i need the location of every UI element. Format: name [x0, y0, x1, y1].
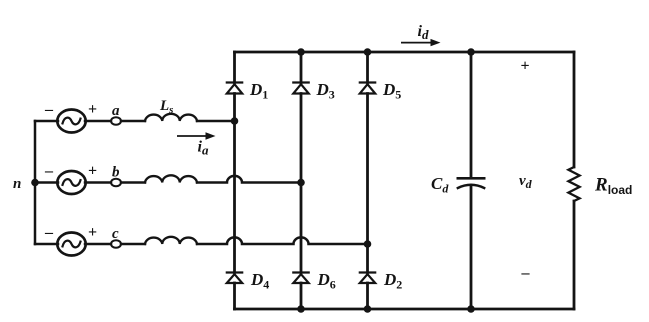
diode D3 — [293, 83, 308, 94]
wire bottom dc rail — [235, 308, 575, 311]
svg-text:ia: ia — [198, 139, 209, 158]
arrow current ia — [177, 132, 216, 139]
svg-text:D3: D3 — [316, 80, 335, 102]
junction bottom rail capacitor — [467, 305, 475, 313]
terminal a — [111, 117, 121, 125]
terminal b — [111, 179, 121, 187]
diode D4 — [227, 273, 242, 284]
svg-text:D5: D5 — [382, 80, 401, 102]
inductor Ls phase a — [145, 114, 197, 121]
wire phase c source leads — [35, 243, 58, 246]
wire phase b source leads — [35, 181, 58, 184]
svg-text:vd: vd — [519, 173, 533, 191]
junction bottom rail column 3 — [364, 305, 372, 313]
svg-text:–: – — [521, 264, 531, 281]
AC source Vc — [57, 233, 85, 256]
diode D5 — [360, 83, 375, 94]
wire bridge column 1 — [233, 52, 236, 83]
svg-text:–: – — [44, 224, 54, 241]
junction phase a column 1 — [231, 117, 239, 125]
AC source Va — [57, 110, 85, 133]
wire left rail — [34, 121, 37, 244]
wire bridge column 2 — [300, 52, 303, 83]
svg-text:id: id — [418, 23, 429, 42]
capacitor Cd — [458, 52, 484, 309]
AC source Vb — [57, 171, 85, 194]
resistor Rload — [568, 52, 579, 309]
svg-text:n: n — [13, 176, 21, 192]
svg-text:c: c — [112, 226, 119, 242]
junction top rail column 3 — [364, 48, 372, 56]
svg-text:+: + — [88, 224, 97, 241]
wire phase b inductor to bridge with hop over column 1 — [197, 176, 301, 183]
svg-text:Rload: Rload — [594, 175, 632, 198]
diode D6 — [293, 273, 308, 284]
wire phase a inductor to bridge — [197, 120, 235, 123]
junction top rail column 2 — [297, 48, 305, 56]
wire phase c inductor to bridge with hops over columns 1 and 2 — [197, 237, 368, 244]
inductor phase c — [145, 237, 197, 244]
junction top rail capacitor — [467, 48, 475, 56]
svg-text:b: b — [112, 165, 120, 181]
junction phase c column 3 — [364, 240, 372, 248]
inductor phase b — [145, 175, 197, 182]
svg-text:Cd: Cd — [431, 174, 449, 196]
wire top dc rail — [235, 51, 575, 54]
wire phase a source leads — [35, 120, 58, 123]
svg-text:Ls: Ls — [159, 98, 173, 116]
junction bottom rail column 2 — [297, 305, 305, 313]
svg-text:+: + — [88, 101, 97, 118]
svg-text:+: + — [88, 163, 97, 180]
svg-text:a: a — [112, 103, 120, 119]
diode D2 — [360, 273, 375, 284]
svg-text:D4: D4 — [250, 270, 269, 292]
node n junction dot — [31, 179, 39, 187]
svg-text:–: – — [44, 101, 54, 118]
wire bridge column 3 — [366, 52, 369, 83]
svg-text:+: + — [521, 58, 530, 75]
svg-text:D6: D6 — [317, 270, 336, 292]
svg-text:D2: D2 — [383, 270, 402, 292]
svg-text:D1: D1 — [249, 80, 268, 102]
junction phase b column 2 — [297, 179, 305, 187]
diode D1 — [227, 83, 242, 94]
terminal c — [111, 240, 121, 248]
arrow current id — [401, 39, 441, 46]
svg-text:–: – — [44, 163, 54, 180]
